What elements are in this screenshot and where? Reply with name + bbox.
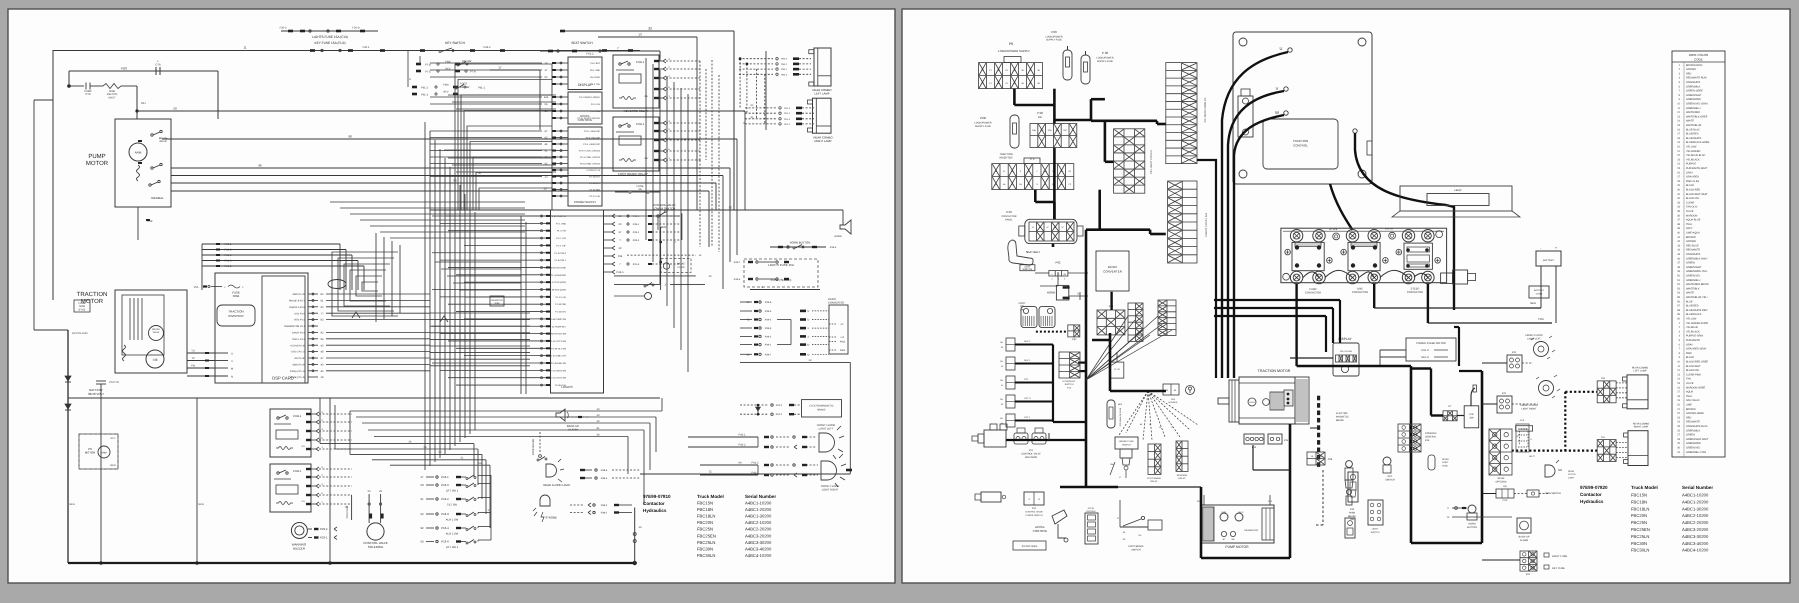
svg-text:17: 17: [420, 475, 424, 479]
svg-text:P2-9 +COAL LOGICS: P2-9 +COAL LOGICS: [579, 150, 601, 153]
svg-text:SW(TCH: SW(TCH: [1371, 531, 1380, 534]
thick bus y391: [1110, 390, 1166, 393]
svg-text:LIFT SW 1: LIFT SW 1: [446, 490, 459, 493]
svg-text:CONTROL: CONTROL: [1086, 510, 1097, 513]
svg-text:R 1 B: R 1 B: [1114, 368, 1120, 371]
svg-text:RED-BLUE: RED-BLUE: [1686, 244, 1699, 247]
svg-text:YEL/BLACK: YEL/BLACK: [1686, 158, 1700, 161]
bundle vertical 2: [434, 140, 436, 462]
svg-text:BLACK: BLACK: [1686, 356, 1695, 359]
em brake diode: [757, 405, 759, 414]
svg-text:P42-2: P42-2: [739, 444, 746, 447]
svg-text:P7-C: P7-C: [425, 71, 431, 74]
hydraulic switch block P13: [1059, 352, 1080, 378]
rear combo right wire P51-4: [745, 118, 776, 120]
svg-text:36/48 VOLT: 36/48 VOLT: [88, 392, 104, 396]
steer contactor bars: [1407, 247, 1429, 252]
svg-text:P15-1: P15-1: [225, 243, 232, 246]
power supply block: [568, 127, 602, 206]
wire 17 from dir switches: [490, 69, 540, 71]
svg-text:WHITE/RED: WHITE/RED: [1686, 111, 1700, 114]
svg-text:P2-16 KEY: P2-16 KEY: [589, 182, 600, 185]
rear combo left wire P50-4: [739, 73, 773, 75]
fb relay contacts: [619, 125, 621, 127]
svg-text:FUSE: FUSE: [1442, 464, 1448, 467]
phase wire V: [1228, 91, 1284, 378]
svg-text:YEL/BLUE-BLAC: YEL/BLUE-BLAC: [1686, 154, 1706, 157]
capacitor L CTR: [155, 67, 157, 75]
svg-text:-: -: [1540, 246, 1541, 250]
thick bus x1201: [1200, 487, 1203, 558]
svg-text:STROBE: STROBE: [1519, 428, 1529, 431]
logics exit P26-1: [604, 231, 613, 233]
p51 dash y457.6: [1616, 457, 1628, 459]
svg-text:P1-51 LIFT3 SW: P1-51 LIFT3 SW: [550, 340, 567, 343]
svg-text:P50-1: P50-1: [781, 68, 788, 71]
svg-text:BK 3: BK 3: [1239, 511, 1245, 514]
svg-text:FBC25N: FBC25N: [1631, 520, 1647, 525]
svg-text:P2-15 KEY: P2-15 KEY: [589, 176, 600, 179]
svg-text:P46-2: P46-2: [484, 46, 491, 49]
extra caps row top: [560, 30, 565, 33]
light switch device: [1368, 500, 1383, 525]
svg-text:KY-1: KY-1: [110, 437, 116, 440]
steer contactor body: [1404, 243, 1432, 269]
staircase wire 7: [476, 173, 552, 211]
pump contactor bolts: [1295, 245, 1299, 249]
svg-text:ARM: ARM: [135, 151, 142, 155]
svg-text:7RC: 7RC: [1063, 129, 1068, 132]
relay K1 contacts: [277, 417, 279, 419]
controller screw BL: [1239, 170, 1247, 178]
dcdc link 3 at 328.1: [800, 327, 806, 330]
svg-text:RED/WHITE: RED/WHITE: [1686, 249, 1700, 252]
svg-text:P15: P15: [1284, 439, 1289, 442]
wire TU: [187, 352, 215, 354]
svg-text:NEG O: NEG O: [1421, 356, 1429, 359]
svg-text:ALARM: ALARM: [568, 428, 578, 432]
svg-text:SUPPLY FUSE: SUPPLY FUSE: [1097, 60, 1114, 63]
svg-text:P26-2: P26-2: [633, 239, 640, 242]
svg-text:BLUE/WHITE-RED: BLUE/WHITE-RED: [1686, 309, 1708, 312]
svg-text:+: +: [1555, 246, 1557, 250]
svg-text:TV: TV: [191, 357, 195, 360]
bundle vertical 1: [429, 131, 431, 466]
relay K1 coil: [276, 447, 293, 450]
svg-text:HYDRAULIC: HYDRAULIC: [1063, 380, 1076, 383]
svg-text:YEL/BLACK: YEL/BLACK: [1686, 330, 1700, 333]
wire 13 top: [598, 36, 697, 38]
svg-text:F20-D: F20-D: [352, 27, 359, 30]
svg-text:A4BC2-20200: A4BC2-20200: [745, 527, 772, 532]
logic feed wire 7: [430, 358, 530, 360]
relay K2 box: [270, 464, 311, 512]
svg-text:P39-6: P39-6: [765, 301, 772, 304]
relay K2 pin 1: [306, 503, 311, 505]
svg-text:YEL/BLUE: YEL/BLUE: [1686, 326, 1698, 329]
svg-text:SEAT SWITCH: SEAT SWITCH: [571, 41, 593, 45]
cross wire mid y214: [350, 213, 525, 215]
svg-text:13: 13: [543, 187, 547, 191]
svg-text:P18: P18: [1037, 111, 1043, 115]
svg-text:P41-2: P41-2: [752, 462, 759, 465]
svg-text:P26-1: P26-1: [633, 231, 640, 234]
svg-text:BRAKE FLUID: BRAKE FLUID: [1119, 440, 1134, 443]
svg-text:TAN-OLIV: TAN-OLIV: [1686, 206, 1698, 209]
svg-text:P4-4 +5V: P4-4 +5V: [591, 103, 601, 106]
svg-text:GREEN/BLU: GREEN/BLU: [1686, 107, 1701, 110]
PSS fuse: [351, 495, 353, 520]
svg-text:LOGIC/POWER SUPPLY: LOGIC/POWER SUPPLY: [998, 49, 1030, 53]
fan wire 5: [1086, 322, 1165, 380]
svg-text:OPT(ONS: OPT(ONS: [1496, 480, 1507, 483]
backup alarm right page: [1517, 518, 1531, 533]
svg-text:P2-9 +15V0 DSP: P2-9 +15V0 DSP: [583, 143, 600, 146]
dcdc link 33 at 344.6: [800, 343, 806, 346]
svg-text:P1-16 KEY: P1-16 KEY: [555, 311, 566, 314]
svg-text:HORN: HORN: [1047, 291, 1055, 295]
dashed ray to 1165: [1148, 391, 1165, 437]
svg-text:MAROON: MAROON: [1686, 214, 1697, 217]
svg-text:FOOT BRAKE: FOOT BRAKE: [1147, 477, 1162, 480]
svg-text:SWITCH: SWITCH: [1131, 548, 1141, 551]
front flood light right lamp: [821, 461, 837, 480]
row P39-3: [754, 327, 758, 329]
em brake dashed link: [1322, 470, 1324, 525]
svg-text:PHASE A P1-6: PHASE A P1-6: [289, 306, 305, 309]
svg-text:TILT: TILT: [1024, 378, 1029, 381]
staircase wire 8: [479, 188, 552, 210]
wire 13 long right: [740, 361, 850, 363]
svg-text:A4BC1-30200: A4BC1-30200: [745, 514, 772, 519]
traction motor box: [115, 290, 187, 373]
hydraulic switch LIFT 0 SW: [1006, 395, 1015, 408]
svg-text:P51-2: P51-2: [784, 123, 791, 126]
bundle vertical 4: [444, 158, 446, 454]
svg-text:KEY FUSE: KEY FUSE: [1552, 567, 1565, 570]
hyd elbow y344.5: [1015, 344, 1053, 346]
thick bus to II mast: [1098, 190, 1101, 230]
svg-text:P6-2 BAT: P6-2 BAT: [591, 62, 601, 65]
vertical rail x197: [196, 398, 198, 563]
svg-text:POS: POS: [121, 67, 127, 71]
svg-text:P38-1: P38-1: [601, 512, 608, 515]
svg-text:P50-4: P50-4: [781, 73, 788, 76]
P61 connector right: [1068, 325, 1080, 337]
P42-1 row: [688, 436, 758, 438]
pump motor lower contact: [151, 167, 153, 169]
svg-text:99E: 99E: [1038, 116, 1043, 119]
svg-text:P42-1: P42-1: [739, 434, 746, 437]
svg-text:P2B: P2B: [980, 116, 986, 120]
logic feed wire 5: [430, 345, 530, 347]
relay K1 pin 1: [306, 448, 311, 450]
fb relay pin 2: [654, 130, 659, 132]
svg-text:CONTACTOR: CONTACTOR: [1352, 291, 1368, 294]
thick bus main vertical: [1053, 148, 1056, 219]
long bundle wire 10: [356, 416, 656, 418]
accel pedal: [1052, 510, 1067, 524]
bundle vertical 10: [474, 212, 476, 430]
staircase wire 0: [455, 64, 552, 210]
svg-text:GND P1-29: GND P1-29: [293, 293, 306, 296]
terminal B+: [1353, 129, 1357, 133]
PS motor armature: [98, 446, 110, 458]
svg-text:V PWR P2-13: V PWR P2-13: [586, 169, 600, 172]
wire drops from staircase: [551, 64, 553, 210]
svg-text:FOOT BRAKE RELAY: FOOT BRAKE RELAY: [618, 172, 648, 176]
traction inverter rounded box: [217, 305, 255, 326]
dashed ray to 1143: [1143, 391, 1148, 440]
svg-text:PUR/WHITE: PUR/WHITE: [1686, 339, 1700, 342]
svg-text:P38-5: P38-5: [601, 477, 608, 480]
controller aux relay: [1238, 96, 1253, 137]
svg-text:P1-47 SEAT SW: P1-47 SEAT SW: [550, 369, 567, 372]
svg-text:P 30: P 30: [1102, 51, 1108, 55]
P3 mast column grid: [1166, 63, 1197, 164]
P14 connector: [1244, 434, 1264, 444]
thick bus y543: [1411, 542, 1482, 545]
relay K2 pin 2: [306, 476, 311, 478]
cv lower switch sym: [657, 215, 659, 217]
svg-text:P1-36 RXD (DSP): P1-36 RXD (DSP): [548, 289, 566, 292]
svg-text:P7-A: P7-A: [470, 71, 476, 74]
panel screw 1: [1285, 249, 1291, 255]
svg-text:KN CTR ASSY: KN CTR ASSY: [72, 332, 88, 335]
svg-text:CONVERTER: CONVERTER: [828, 301, 844, 304]
svg-text:U: U: [1280, 46, 1283, 51]
svg-text:A4BC2-10200: A4BC2-10200: [1682, 513, 1709, 518]
left rail lower: [33, 100, 35, 330]
links to P41: [1482, 403, 1497, 405]
svg-text:WEAR: WEAR: [153, 331, 160, 334]
wire N: [187, 375, 228, 377]
strobe boxed label: [1516, 426, 1533, 431]
svg-text:LIME-AQUA: LIME-AQUA: [1686, 232, 1700, 235]
pos bus to battery: [1428, 322, 1552, 324]
reverse relay pin 3: [654, 60, 659, 62]
P28 grid right: [1097, 310, 1125, 335]
fuse P30 body: [1081, 55, 1090, 84]
svg-text:2A: 2A: [638, 188, 641, 191]
nest loop 0: [332, 252, 398, 316]
battery diode upper: [65, 376, 71, 381]
svg-text:FWD: FWD: [443, 84, 449, 87]
phase wire W: [1234, 115, 1284, 378]
svg-text:WHITE: WHITE: [1686, 292, 1694, 295]
svg-text:13: 13: [638, 33, 642, 37]
em brake dash 4: [1317, 425, 1320, 430]
svg-text:GREEN/YEL: GREEN/YEL: [1686, 275, 1701, 278]
brake fluid switch: [1115, 437, 1138, 449]
foot dir sw conn B hatch: [1040, 316, 1042, 326]
right bundle vertical 0: [645, 58, 647, 240]
hyd elbow y382.5: [1015, 382, 1053, 384]
P41 connector: [1497, 396, 1512, 413]
pcr connector: [1496, 489, 1514, 498]
svg-text:COM 4: COM 4: [293, 470, 302, 473]
fan wire 4: [1086, 316, 1158, 380]
reverse relay pin 5: [654, 88, 659, 90]
P11 bus: [1006, 439, 1086, 441]
foot brake relay box: [613, 117, 659, 171]
svg-text:BROWN: BROWN: [1686, 408, 1696, 411]
svg-text:TRACTION: TRACTION: [77, 291, 108, 298]
svg-text:P6-1 GND: P6-1 GND: [590, 69, 601, 72]
svg-text:REV: REV: [444, 91, 449, 94]
svg-text:P24-2: P24-2: [776, 404, 783, 407]
cross wire logics y269: [441, 268, 521, 270]
staircase wire 6: [473, 157, 552, 210]
svg-text:LIGHT FUSE: LIGHT FUSE: [1552, 555, 1567, 558]
left page sheet: [8, 9, 895, 583]
svg-text:P34: P34: [618, 255, 623, 258]
svg-text:CONVERTER: CONVERTER: [1103, 270, 1123, 274]
em brake feed: [1310, 427, 1317, 429]
svg-text:TRACTION: TRACTION: [1293, 139, 1308, 143]
traction motor brush pack: [1270, 392, 1284, 410]
svg-text:POWER STEER MOTOR: POWER STEER MOTOR: [1416, 342, 1446, 345]
LB6C display bar: [1400, 186, 1512, 211]
svg-text:POS: POS: [1538, 318, 1544, 321]
svg-text:GREEN/BLK-NAVY: GREEN/BLK-NAVY: [1686, 257, 1708, 260]
svg-text:P62-2: P62-2: [587, 53, 594, 56]
svg-text:CTR: CTR: [85, 93, 90, 96]
panel screw 6: [1435, 258, 1441, 264]
svg-text:(FU5): (FU5): [79, 308, 86, 311]
svg-text:REVERSE: REVERSE: [1177, 474, 1188, 477]
contactor corner hole TR: [1436, 231, 1443, 238]
svg-text:Serial Number: Serial Number: [1682, 485, 1713, 490]
svg-text:ARM: ARM: [101, 452, 106, 455]
svg-text:PINK-CLEA: PINK-CLEA: [1686, 180, 1700, 183]
pump motor right cap: [1262, 508, 1274, 540]
thick elbow into x1482: [1459, 370, 1482, 372]
svg-text:SEAT BELT: SEAT BELT: [1026, 250, 1041, 254]
svg-text:7RB: 7RB: [1048, 129, 1053, 132]
svg-text:GREEN/BLU-TAN: GREEN/BLU-TAN: [1686, 451, 1706, 454]
svg-text:500A: 500A: [233, 294, 240, 298]
svg-text:OLIVE: OLIVE: [1686, 382, 1694, 385]
svg-text:P13-6: P13-6: [441, 540, 449, 544]
work light fuse: [1428, 455, 1435, 470]
fan wire 6: [1086, 330, 1172, 380]
svg-text:P38-2: P38-2: [601, 504, 608, 507]
hydraulic thick bus: [1052, 345, 1054, 423]
svg-text:97E99-07810: 97E99-07810: [643, 494, 671, 499]
zigzag wire symbol 1: [352, 312, 360, 318]
svg-text:P1-5 PVN 0: P1-5 PVN 0: [554, 252, 566, 255]
connector P19 tabs: [1019, 226, 1025, 236]
foot dir dotted link: [1036, 331, 1068, 333]
svg-text:GROWN: GROWN: [1686, 240, 1696, 243]
P12 device: [981, 492, 1001, 502]
drops from top horizontals: [1339, 300, 1341, 343]
svg-text:AQUA-BLUE: AQUA-BLUE: [1686, 219, 1701, 222]
svg-text:P6 L MAST CONN 9: P6 L MAST CONN 9: [1150, 150, 1153, 174]
svg-text:50: 50: [1001, 346, 1003, 349]
svg-text:NEG: NEG: [110, 464, 115, 467]
wire top rail 11 (key fuse feed): [53, 50, 640, 52]
svg-text:SOLENOID: SOLENOID: [368, 545, 384, 549]
controller screw BR: [1358, 170, 1366, 178]
thick top horizontals bottom quadrant: [1214, 299, 1340, 301]
bundle vertical 5: [449, 167, 451, 450]
svg-text:ORN/WHITE: ORN/WHITE: [1686, 253, 1701, 256]
reverse relay box: [613, 55, 659, 108]
svg-text:BLUE/RED: BLUE/RED: [1686, 133, 1699, 136]
traction controller outer box: [1233, 32, 1372, 184]
long bundle wire 34: [374, 436, 628, 438]
bundle vertical 0: [424, 122, 426, 470]
logics exit P26-2: [604, 239, 613, 241]
svg-text:54: 54: [1001, 422, 1003, 425]
svg-text:GRAY/RED: GRAY/RED: [1686, 176, 1699, 179]
extra long wire y216: [445, 215, 680, 217]
dashed vertical pair near relays: [699, 61, 701, 160]
foot dir sw conn A hatch: [1022, 316, 1024, 326]
svg-text:P1-24 +5V: P1-24 +5V: [556, 296, 567, 299]
fb relay pin 4: [654, 139, 659, 141]
P12 conn: [1024, 492, 1044, 505]
svg-text:72: 72: [728, 206, 732, 210]
fan wire 3: [1086, 335, 1150, 380]
wire 7 corner: [659, 51, 661, 58]
svg-text:BATTERY: BATTERY: [1543, 259, 1554, 262]
svg-text:A4BC1-20200: A4BC1-20200: [1682, 499, 1709, 504]
logic feed wire 1: [430, 319, 530, 321]
svg-text:MAROON-GREE: MAROON-GREE: [1686, 386, 1706, 389]
svg-text:WHITE/BLUE: WHITE/BLUE: [1686, 124, 1702, 127]
harness wire P15-1: [202, 243, 340, 245]
front flood light left lamp: [819, 433, 835, 452]
svg-text:WHITE/BLUE-YEL/: WHITE/BLUE-YEL/: [1686, 296, 1708, 299]
lift switch collector: [490, 475, 492, 540]
svg-text:P6-3 TXD: P6-3 TXD: [590, 83, 600, 86]
svg-text:A4BC2-20200: A4BC2-20200: [1682, 520, 1709, 525]
svg-text:AUX 2: AUX 2: [1024, 340, 1031, 343]
svg-text:CAN(-) P1-15: CAN(-) P1-15: [291, 376, 306, 379]
rear combo right lamp right page: [1628, 431, 1648, 466]
dcdc converter right page: [1096, 251, 1129, 291]
svg-text:TW: TW: [191, 365, 196, 368]
svg-text:BLACK/YEL: BLACK/YEL: [1686, 197, 1700, 200]
logic feed wire 2: [430, 325, 530, 327]
svg-text:+15V-G P1-16: +15V-G P1-16: [290, 344, 306, 347]
horn button row: [770, 246, 826, 248]
back up alarm speaker: [556, 409, 565, 421]
svg-text:P51-1: P51-1: [784, 112, 791, 115]
bus end riser: [634, 508, 636, 564]
combo row verticals: [739, 59, 741, 108]
svg-text:P46-3: P46-3: [734, 278, 741, 281]
power steer motor box: [1406, 338, 1456, 361]
svg-text:CONTACTOR: CONTACTOR: [1305, 291, 1321, 294]
svg-text:P2-6 +5V DSP: P2-6 +5V DSP: [586, 137, 601, 140]
svg-text:Truck Model: Truck Model: [1631, 485, 1658, 490]
vertical drop x734 from 33 wire: [733, 31, 735, 210]
svg-text:P15-2: P15-2: [225, 249, 232, 252]
P41-2 row: [700, 464, 758, 466]
svg-text:P39-3: P39-3: [765, 327, 772, 330]
cross wire mid y238: [390, 237, 525, 239]
svg-text:A4BC3-30200: A4BC3-30200: [1682, 534, 1709, 539]
svg-text:FBC18LN: FBC18LN: [1631, 506, 1649, 511]
dashed ray to 1190: [1148, 391, 1190, 430]
svg-text:AQUA: AQUA: [1686, 391, 1693, 394]
svg-text:FBC30LN: FBC30LN: [1631, 548, 1649, 553]
extra weave y150: [444, 149, 556, 151]
